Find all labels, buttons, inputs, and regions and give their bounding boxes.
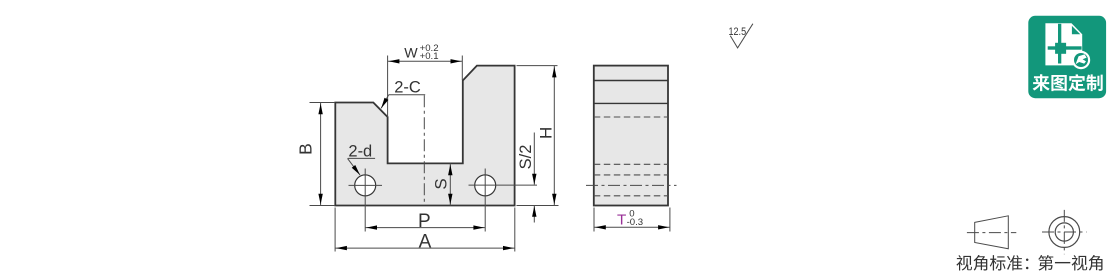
dimension W line + arrows	[388, 60, 463, 62]
frustum centerline	[967, 232, 1016, 234]
surface roughness symbol 12.5	[730, 24, 753, 48]
hole right centerlines (horizontal extends right as S/2 datum)	[469, 184, 538, 186]
svg-text:12.5: 12.5	[729, 26, 747, 38]
svg-text:S: S	[432, 178, 451, 189]
hole right (2-d)	[475, 175, 496, 196]
hole left centerlines	[349, 184, 383, 186]
side view B-step edge line	[594, 102, 668, 104]
side view chamfer edge line	[594, 80, 668, 82]
dimension S line + arrows	[449, 163, 451, 205]
badge cross (drawing mark)	[1048, 24, 1082, 64]
dimension T line + arrows	[594, 226, 670, 228]
side view hidden line (left chamfer)	[594, 116, 668, 118]
side view hidden line (hole bottom)	[594, 195, 668, 197]
svg-text:S/2: S/2	[517, 145, 535, 170]
first-angle frustum symbol	[975, 216, 1009, 249]
first-angle circles symbol	[1049, 217, 1080, 248]
badge pen circle	[1072, 51, 1090, 69]
svg-text:P: P	[418, 211, 431, 232]
svg-text:H: H	[537, 127, 556, 139]
svg-text:-0.3: -0.3	[627, 217, 644, 228]
slot vertical centerline	[423, 95, 425, 205]
svg-text:B: B	[296, 143, 316, 155]
side view hidden line (hole top)	[594, 174, 668, 176]
side view outline	[594, 66, 668, 206]
2-d leader arrow to hole	[348, 158, 361, 175]
badge text glyphs	[1033, 74, 1103, 91]
badge document icon: white page with folded corner	[1045, 23, 1082, 65]
svg-text:W: W	[404, 46, 418, 62]
front view part outline (U-slot block)	[335, 66, 514, 206]
svg-text:2-C: 2-C	[394, 79, 421, 97]
dimension H line + arrows	[553, 66, 555, 206]
caption 视角标准：第一视角	[956, 255, 1102, 271]
dimension A line + arrows	[335, 247, 515, 249]
badge document fold crease	[1072, 26, 1080, 34]
badge background (green rounded square)	[1028, 16, 1106, 98]
dimension H extension lines	[517, 65, 558, 67]
svg-text:T: T	[617, 211, 626, 228]
dimension B extension lines	[310, 102, 336, 104]
side view hidden line (slot floor)	[594, 163, 668, 165]
dimension P line + arrows	[365, 227, 485, 229]
svg-text:A: A	[419, 232, 432, 253]
dimension B line + arrows	[320, 103, 322, 206]
side view hole centerline	[586, 184, 677, 186]
dimension S/2 upper line + down arrow	[533, 133, 535, 185]
dimension S/2 lower line + up arrow	[533, 206, 535, 223]
dimension A extension lines	[334, 208, 336, 252]
2-C leader arrow to chamfer	[381, 95, 389, 109]
dimension W extension lines	[387, 56, 389, 118]
circles crosshair	[1063, 210, 1065, 254]
dimension T extension lines	[593, 208, 595, 232]
svg-text:+0.1: +0.1	[420, 51, 439, 62]
hole left (2-d)	[355, 175, 376, 196]
